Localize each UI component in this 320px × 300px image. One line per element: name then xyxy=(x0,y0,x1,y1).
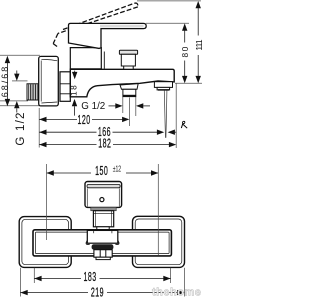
svg-text:thehome: thehome xyxy=(152,287,201,299)
svg-text:G 1/2: G 1/2 xyxy=(15,111,27,145)
svg-text:±12: ±12 xyxy=(113,165,122,173)
svg-text:68/68: 68/68 xyxy=(0,65,10,98)
svg-text:80: 80 xyxy=(180,45,190,57)
svg-text:182: 182 xyxy=(98,138,111,152)
svg-text:18: 18 xyxy=(69,84,79,96)
svg-text:150: 150 xyxy=(95,165,108,179)
svg-text:183: 183 xyxy=(84,271,97,285)
svg-text:120: 120 xyxy=(78,114,91,128)
svg-text:111: 111 xyxy=(194,39,204,50)
svg-text:219: 219 xyxy=(91,286,104,300)
svg-text:G 1/2: G 1/2 xyxy=(81,101,105,112)
